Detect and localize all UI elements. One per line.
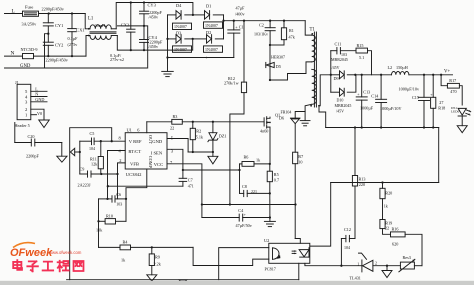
svg-text:5.1k: 5.1k <box>196 135 204 140</box>
resistor R15 5.1 <box>356 48 368 53</box>
resistor R7 10 <box>293 152 298 164</box>
svg-text:N: N <box>11 51 15 57</box>
svg-text:C9: C9 <box>80 166 85 171</box>
ground secondary left <box>300 120 310 122</box>
svg-text:D6: D6 <box>279 116 284 121</box>
wire bottom rail <box>67 279 299 281</box>
svg-text:LED0: LED0 <box>451 110 460 114</box>
svg-text:RT/CT: RT/CT <box>128 149 141 154</box>
svg-text:/450v: /450v <box>149 44 159 49</box>
wire R4 feed line <box>99 246 121 248</box>
svg-text:I SEN: I SEN <box>151 150 163 155</box>
svg-text:CY2: CY2 <box>55 43 63 48</box>
wire VREF line <box>79 141 81 174</box>
svg-text:+: + <box>244 213 246 217</box>
svg-text:HER307: HER307 <box>271 55 285 60</box>
wire TL431 cathode line <box>341 265 362 267</box>
wire secondary left lead <box>305 104 312 120</box>
zener DZ1 <box>212 122 214 133</box>
resistor R20 1k <box>382 183 384 189</box>
svg-text:GND: GND <box>20 64 31 69</box>
wire opto collector to divider feed <box>310 183 331 247</box>
resistor R13 220 <box>354 128 356 176</box>
wire TL431 anode line <box>373 265 401 267</box>
svg-text:1N4007: 1N4007 <box>174 24 187 29</box>
svg-text:470: 470 <box>450 89 456 94</box>
wire GND earth line <box>5 67 147 69</box>
svg-text:R2: R2 <box>196 129 201 134</box>
svg-text:4n60: 4n60 <box>260 129 268 134</box>
svg-text:620: 620 <box>392 242 398 247</box>
node AC top <box>192 14 194 16</box>
svg-text:R7: R7 <box>298 154 303 159</box>
wire output V+ rail <box>355 74 391 76</box>
svg-text:22: 22 <box>385 226 389 231</box>
svg-text:/450v: /450v <box>149 15 159 20</box>
svg-text:103/1Kv: 103/1Kv <box>254 32 268 37</box>
svg-text:R11: R11 <box>90 156 97 161</box>
wire bridge negative column <box>167 15 169 58</box>
wire C9 end down to C6 line <box>117 174 119 199</box>
svg-text:C13: C13 <box>363 90 370 95</box>
resistor R9 2.2k <box>151 247 153 254</box>
wire primary ground rail <box>168 57 234 59</box>
resistor R2 5.1k <box>192 122 194 129</box>
wire R15 to cathode rail <box>368 51 372 75</box>
diode clamp on riser <box>70 148 74 155</box>
ground mark on rail <box>179 280 187 285</box>
capacitor C12 104 <box>349 238 355 240</box>
svg-text:C6: C6 <box>116 192 121 197</box>
svg-text:MBR2045: MBR2045 <box>331 57 348 62</box>
svg-text:1N4007: 1N4007 <box>205 47 218 52</box>
ground DS1 <box>461 116 463 126</box>
wire N input line <box>5 55 23 57</box>
wire J1 pin4 N <box>31 96 47 98</box>
wire V- rail <box>326 127 439 129</box>
svg-text:CX2: CX2 <box>121 23 129 28</box>
capacitor CX1 0.1uF 275v <box>71 14 73 29</box>
svg-text:CY1: CY1 <box>55 23 63 28</box>
resistor R6 1k <box>240 163 243 165</box>
wire L input line <box>5 13 23 15</box>
wire feed to divider <box>331 182 439 184</box>
phototransistor inside U2 <box>299 250 309 257</box>
wire right edge drop <box>438 128 440 183</box>
regulator TL431 <box>361 260 363 272</box>
resistor R12 270k/1w startup <box>243 21 245 82</box>
svg-text:2.2k: 2.2k <box>154 261 162 266</box>
svg-text:CX1: CX1 <box>76 28 84 33</box>
svg-text:Fuse: Fuse <box>25 5 33 10</box>
wire bottom rail after choke <box>117 36 192 51</box>
svg-text:104: 104 <box>344 245 350 250</box>
node Y-cap midpoint <box>143 25 145 27</box>
svg-text:(275v: (275v <box>68 42 79 47</box>
svg-text:L2: L2 <box>388 65 393 70</box>
svg-text:COMP: COMP <box>148 156 153 169</box>
svg-text:UC3842: UC3842 <box>126 172 142 177</box>
wire pin2 VFB <box>118 163 126 174</box>
svg-text:22: 22 <box>170 126 174 131</box>
wire R13 to C12 <box>354 186 356 239</box>
svg-text:R9: R9 <box>155 255 160 260</box>
svg-text:103: 103 <box>116 202 122 207</box>
svg-text:3A/250v: 3A/250v <box>22 21 38 26</box>
svg-text:/400v: /400v <box>235 12 245 17</box>
svg-text:V REF: V REF <box>129 139 142 144</box>
diode D2 1N4007 <box>193 38 207 40</box>
diode D5 HER307 <box>269 45 271 80</box>
svg-text:2A223J: 2A223J <box>78 182 91 187</box>
capacitor C14 1000uF/10V <box>380 75 382 100</box>
svg-text:GND: GND <box>152 139 163 144</box>
svg-text:C5: C5 <box>90 131 95 136</box>
wire pin3 ISEN <box>167 149 183 170</box>
svg-text:U2: U2 <box>264 238 269 243</box>
svg-text:R10: R10 <box>106 213 113 218</box>
svg-text:5.1: 5.1 <box>359 55 364 60</box>
wire rail riser to opto anode <box>219 248 269 280</box>
node left bus <box>79 151 81 153</box>
capacitor C13 1000uF <box>361 75 363 97</box>
svg-text:12k: 12k <box>91 162 98 167</box>
svg-text:MBR2045: MBR2045 <box>335 103 352 108</box>
wire Res3 out <box>414 265 422 267</box>
diode D4 1N4007 <box>168 14 177 16</box>
svg-text:1000µF/10v: 1000µF/10v <box>399 86 420 91</box>
svg-text:R16: R16 <box>392 227 399 232</box>
ground DZ1 <box>212 152 214 156</box>
capacitor C20 2200pF <box>14 123 16 143</box>
svg-text:V+: V+ <box>444 69 450 74</box>
wire J1 pin2 to ground <box>31 109 44 120</box>
svg-text:C8: C8 <box>242 184 247 189</box>
svg-text:R5: R5 <box>274 172 279 177</box>
svg-text:104: 104 <box>89 146 95 151</box>
svg-text:FR104: FR104 <box>281 109 292 114</box>
svg-text:47µF/50v: 47µF/50v <box>236 223 253 228</box>
wire J1 pin5 L <box>31 90 47 92</box>
svg-text:L1: L1 <box>88 17 94 22</box>
svg-text:R1: R1 <box>289 28 294 33</box>
node D9 anode <box>330 74 332 76</box>
svg-text:1000µF/10V: 1000µF/10V <box>380 106 402 111</box>
resistor R1 47k <box>283 21 285 28</box>
wire VCC bus drop to opto <box>295 239 300 244</box>
svg-text:270k/1w: 270k/1w <box>224 81 239 86</box>
node AC bottom <box>192 38 194 40</box>
svg-text:150µH: 150µH <box>396 65 408 70</box>
svg-text:V0: V0 <box>37 111 42 116</box>
capacitor C2 103/1Kv <box>269 21 271 28</box>
capacitor C7 471 <box>182 170 184 178</box>
capacitor CY3 <box>143 3 145 12</box>
wire J1 pin3 GND <box>31 101 47 103</box>
wire V+ rail after L2 <box>409 74 453 76</box>
wire R12 to VCC bus <box>230 93 244 205</box>
svg-text:N: N <box>35 92 38 97</box>
wire R20 to R19 <box>382 199 384 220</box>
svg-text:R6: R6 <box>244 155 249 160</box>
capacitor CX2 <box>130 3 132 30</box>
svg-text:0.1µF: 0.1µF <box>68 36 79 41</box>
node CY mid <box>47 33 49 35</box>
resistor R3 22 <box>172 119 183 124</box>
wire J1 pin1 V0 <box>31 114 37 116</box>
svg-text:C14: C14 <box>371 93 379 98</box>
svg-text:C15: C15 <box>412 95 419 100</box>
wire sense return to ground <box>269 193 271 217</box>
svg-text:27: 27 <box>439 100 443 105</box>
svg-text:471: 471 <box>188 183 194 188</box>
wire gate drive from pin6 <box>146 122 148 133</box>
svg-text:2: 2 <box>119 158 121 163</box>
resistor R16 620 <box>391 232 406 237</box>
wire COMP pin1 <box>126 169 147 200</box>
svg-text:D2: D2 <box>206 30 211 35</box>
svg-text:C12: C12 <box>344 227 351 232</box>
wire pin4 RT/CT <box>108 151 126 199</box>
capacitor C8 221 <box>240 192 244 194</box>
svg-text:D5: D5 <box>276 64 281 69</box>
resistor R5 0.7 <box>269 164 271 171</box>
ground C20 <box>61 143 63 157</box>
transformer T1 secondary <box>312 69 317 104</box>
diode D10 MBR2045 <box>330 75 332 92</box>
wire R4 to opto jog <box>131 246 194 248</box>
svg-text:VCC: VCC <box>154 162 163 167</box>
watermark OFweek logo <box>10 243 83 272</box>
svg-text:D1: D1 <box>206 4 211 9</box>
svg-text:NTC5D-9: NTC5D-9 <box>21 47 38 52</box>
capacitor CY4 <box>143 26 145 40</box>
ground C4 <box>269 218 271 222</box>
svg-text:L: L <box>12 9 15 15</box>
capacitor C9 2A223J <box>80 173 88 175</box>
wire VCC bus <box>202 204 296 206</box>
ground bridge negative <box>167 58 169 72</box>
node drain <box>269 79 271 81</box>
svg-text:1N4007: 1N4007 <box>205 23 218 28</box>
capacitor C11 103 snubber <box>330 51 332 75</box>
diode D1 1N4007 <box>193 14 205 16</box>
svg-text:OFweek: OFweek <box>10 247 53 259</box>
resistor R17 470 <box>441 75 447 86</box>
svg-text:D4: D4 <box>176 3 182 8</box>
resistor R11 12k <box>100 141 102 156</box>
wire bridge positive column <box>223 15 225 39</box>
wire opto emitter to TL431 line <box>305 263 342 265</box>
watermark chinese text dian zi gong cheng wang <box>13 260 22 270</box>
svg-text:R13: R13 <box>359 177 366 182</box>
thermistor NTC5D-9 <box>23 54 34 59</box>
svg-text:221: 221 <box>251 189 257 194</box>
svg-text:275v-x2: 275v-x2 <box>110 57 124 62</box>
wire gate line to Q1 <box>182 121 264 123</box>
wire N line to choke <box>34 55 87 57</box>
wire snubber bottom <box>270 44 284 46</box>
diode D3 1N4007 <box>168 38 177 40</box>
svg-text:GND: GND <box>35 97 44 102</box>
wire C12 to TL431 cathode <box>340 239 342 266</box>
wire pin7 VCC <box>167 164 202 218</box>
svg-text:CY3: CY3 <box>148 3 157 8</box>
svg-text:/45V: /45V <box>336 109 344 114</box>
svg-text:10: 10 <box>298 160 302 165</box>
svg-text:OUT: OUT <box>148 135 153 144</box>
svg-text:VFB: VFB <box>130 162 139 167</box>
svg-text:R18: R18 <box>438 105 445 110</box>
svg-text:R17: R17 <box>449 78 456 83</box>
wire Q1 source <box>269 127 271 164</box>
wire V0 sense riser <box>70 128 112 280</box>
svg-text:2: 2 <box>375 261 377 266</box>
ground J1 <box>39 120 50 128</box>
capacitor C6 103 <box>99 198 113 200</box>
svg-text:C7: C7 <box>188 177 193 182</box>
capacitor C4 47uF/50v <box>202 217 239 219</box>
wire R16 to trimmer <box>405 234 422 265</box>
capacitor CY1 <box>47 14 49 23</box>
svg-text:PC817: PC817 <box>265 266 276 271</box>
svg-text:DZ1: DZ1 <box>219 134 227 139</box>
svg-text:R15: R15 <box>357 43 364 48</box>
wire Y-cap midpoint to earth <box>118 25 145 27</box>
svg-text:2200pF/450v: 2200pF/450v <box>46 58 69 63</box>
svg-text:47k: 47k <box>289 35 296 40</box>
svg-text:R3: R3 <box>173 114 178 119</box>
svg-text:C2: C2 <box>259 23 264 28</box>
ground R9 <box>147 275 157 281</box>
svg-text:10k: 10k <box>96 227 103 232</box>
svg-text:TL431: TL431 <box>350 275 361 280</box>
svg-text:D3: D3 <box>176 31 182 36</box>
resistor R10 10k <box>98 199 100 248</box>
wire rail to opto bottom <box>298 263 300 279</box>
svg-text:2200pF: 2200pF <box>26 153 39 158</box>
wire pin5 GND <box>167 139 188 153</box>
svg-text:2200pF/450v: 2200pF/450v <box>42 6 65 11</box>
resistor R18 27 <box>432 75 434 98</box>
wire secondary top lead to rectifier <box>319 75 331 106</box>
wire ISEN line <box>183 169 240 171</box>
svg-text:Header 5: Header 5 <box>15 123 30 128</box>
svg-text:1000µF: 1000µF <box>360 105 374 110</box>
wire C7 return <box>108 185 183 187</box>
svg-text:C11: C11 <box>335 42 342 47</box>
svg-text:U1: U1 <box>127 128 132 133</box>
svg-text:47µF: 47µF <box>236 6 246 11</box>
wire aux feed through R7 <box>294 124 296 153</box>
resistor R19 22 <box>380 220 385 229</box>
capacitor C5 104 <box>91 138 93 145</box>
wire DC+ rail <box>224 20 306 22</box>
wire ground line <box>188 151 213 153</box>
fuse Fuse 3A/250v <box>23 11 39 16</box>
bottom gray band <box>0 281 474 285</box>
svg-text:+ C1: + C1 <box>235 25 243 30</box>
svg-text:R20: R20 <box>385 190 392 195</box>
diode D9 MBR2045 <box>331 74 340 76</box>
resistor R4 1k <box>120 245 131 250</box>
svg-text:www.ofweek.com: www.ofweek.com <box>49 250 82 255</box>
wire secondary right lead to V- rail <box>319 106 326 128</box>
ground TL431 <box>386 266 388 271</box>
wire ISEN branch vertical <box>239 164 241 194</box>
svg-text:/45V: /45V <box>332 65 340 70</box>
transformer T1 core <box>313 32 315 107</box>
wire top rail after choke <box>116 3 193 29</box>
wire primary bottom to drain <box>270 62 312 80</box>
wire L line to choke <box>39 13 86 15</box>
wire R19 to R16 <box>383 229 391 235</box>
svg-text:0.7: 0.7 <box>274 178 279 183</box>
svg-text:D9: D9 <box>334 76 339 81</box>
svg-text:Res3: Res3 <box>403 255 411 260</box>
wire CY mid to GND line <box>45 34 49 68</box>
svg-text:D10: D10 <box>337 97 344 102</box>
svg-text:C20: C20 <box>28 134 35 139</box>
capacitor CY2 <box>47 34 49 43</box>
svg-text:1N4007: 1N4007 <box>174 47 187 52</box>
